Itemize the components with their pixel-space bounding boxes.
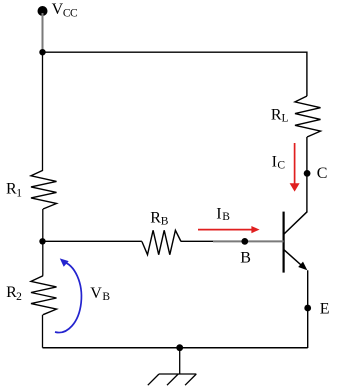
- svg-text:E: E: [320, 300, 330, 317]
- transistor Q1 emitter arrowhead: [298, 262, 307, 271]
- resistor RL: [295, 96, 321, 137]
- terminal VCC: [38, 6, 48, 16]
- wire top rail: [43, 52, 307, 96]
- label IB: [216, 206, 230, 223]
- wire emitter down: [307, 270, 309, 348]
- resistor R1: [31, 170, 57, 209]
- voltage arrow VB (blue arc): [55, 258, 81, 332]
- label VCC: [52, 1, 78, 20]
- wire left rail upper: [42, 52, 44, 170]
- svg-text:I: I: [216, 206, 221, 223]
- wire R1 to mid junction: [42, 209, 44, 241]
- svg-text:L: L: [282, 112, 289, 124]
- node ground junction: [176, 344, 183, 351]
- resistor RB: [142, 230, 181, 254]
- svg-text:B: B: [222, 211, 230, 223]
- svg-text:B: B: [102, 291, 110, 303]
- svg-text:B: B: [161, 216, 169, 228]
- wire bottom rail: [43, 347, 308, 349]
- node E: [304, 305, 311, 312]
- svg-text:2: 2: [16, 291, 22, 303]
- node top junction: [39, 49, 45, 55]
- svg-text:CC: CC: [63, 8, 78, 20]
- wire RB to base (part black): [181, 240, 214, 242]
- ground: [148, 348, 197, 386]
- label RB: [150, 210, 169, 228]
- wire to base (gray): [213, 240, 284, 242]
- wire RL to collector: [306, 137, 308, 212]
- wire mid junction to RB: [43, 240, 142, 242]
- current arrow IC: [290, 143, 300, 192]
- svg-text:B: B: [240, 250, 251, 267]
- svg-text:R: R: [271, 107, 282, 124]
- resistor R2: [31, 276, 57, 315]
- node mid junction: [39, 238, 45, 244]
- wire VCC to top junction (gray): [42, 13, 44, 52]
- current arrow IB: [198, 226, 260, 233]
- svg-text:R: R: [150, 210, 161, 227]
- svg-text:1: 1: [16, 187, 22, 199]
- svg-text:C: C: [277, 159, 285, 171]
- label IC: [272, 154, 286, 172]
- label VB: [90, 285, 110, 303]
- transistor Q1 base bar: [283, 212, 285, 273]
- label R2: [6, 284, 22, 303]
- node C: [304, 170, 311, 177]
- wire R2 to bottom rail: [42, 315, 44, 348]
- svg-text:V: V: [90, 285, 102, 302]
- transistor Q1 emitter diagonal: [284, 250, 305, 269]
- transistor Q1 collector diagonal: [284, 212, 307, 234]
- label R1: [6, 180, 22, 199]
- svg-text:C: C: [317, 165, 328, 182]
- node B: [241, 238, 248, 245]
- wire mid junction to R2: [42, 241, 44, 275]
- label RL: [271, 107, 289, 125]
- svg-text:I: I: [272, 154, 277, 171]
- svg-text:V: V: [52, 1, 64, 18]
